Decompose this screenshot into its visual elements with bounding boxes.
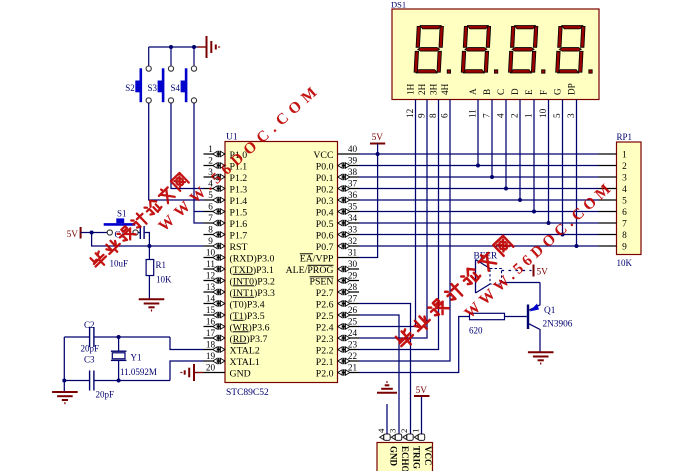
pin 35 io arrow <box>338 208 350 214</box>
wire xtal bottom rail b <box>95 380 171 382</box>
7-seg digit 4 <box>556 26 585 74</box>
watermark C <box>461 178 617 322</box>
wire S4 to chip <box>194 103 204 212</box>
pin 24 stub <box>338 337 360 339</box>
svg-text:9: 9 <box>417 113 427 118</box>
wire buzzer to 5V (dashed) <box>502 270 532 272</box>
svg-text:8: 8 <box>428 113 438 118</box>
transistor Q1 emitter <box>529 283 540 311</box>
pin 16 stub <box>204 326 226 328</box>
wire display digit pin 8 to P2 row <box>359 100 439 350</box>
svg-text:S2: S2 <box>125 83 135 93</box>
svg-text:7: 7 <box>622 220 627 230</box>
wire P0.6 rail <box>359 234 599 236</box>
svg-text:33: 33 <box>348 225 358 235</box>
svg-text:Y1: Y1 <box>131 353 142 363</box>
svg-text:21: 21 <box>348 363 358 373</box>
svg-text:P0.4: P0.4 <box>316 207 334 218</box>
junction display pin 1 <box>532 210 536 214</box>
svg-text:2: 2 <box>510 113 520 118</box>
RP1 pin 1 stub <box>599 153 617 155</box>
crystal Y1 <box>118 337 120 351</box>
pin 1 io arrow <box>213 151 225 157</box>
pin 17 io arrow <box>213 335 225 341</box>
pin 32 stub <box>338 245 360 247</box>
svg-text:7: 7 <box>208 213 213 223</box>
svg-text:5V: 5V <box>537 268 549 278</box>
svg-text:3: 3 <box>387 428 397 433</box>
pin 2 stub <box>204 165 226 167</box>
svg-text:U1: U1 <box>226 133 238 143</box>
pin 31 stub <box>338 257 360 259</box>
pin 25 stub <box>338 326 360 328</box>
svg-text:5: 5 <box>622 197 627 207</box>
7-seg digit 1 <box>414 26 443 74</box>
svg-text:6: 6 <box>208 202 213 212</box>
pin 37 stub <box>338 188 360 190</box>
pin 30 io arrow <box>338 266 350 272</box>
pin 15 io arrow <box>213 312 225 318</box>
pin 23 io arrow <box>338 346 350 352</box>
svg-text:GND: GND <box>230 368 251 379</box>
wire reset rail <box>92 233 204 247</box>
junction reset 5V <box>90 231 94 235</box>
svg-text:20pF: 20pF <box>81 344 100 354</box>
svg-text:1: 1 <box>524 113 534 118</box>
wire P0.0 rail <box>359 165 599 167</box>
watermark A latin <box>155 80 324 235</box>
svg-text:P1.4: P1.4 <box>230 196 248 207</box>
ground xtal <box>52 392 78 403</box>
wire GND pin 4 <box>386 404 388 434</box>
svg-text:29: 29 <box>348 271 358 281</box>
switch S4 <box>193 47 195 66</box>
wire P0.1 rail <box>359 176 599 178</box>
connector JP body <box>377 443 433 471</box>
buzzer BEER body <box>475 260 477 294</box>
switch S3 <box>170 47 172 66</box>
pin 19 io arrow <box>213 358 225 364</box>
ground above connector <box>377 382 397 393</box>
pin 25 io arrow <box>338 323 350 329</box>
svg-text:20: 20 <box>206 363 216 373</box>
pin 36 stub <box>338 199 360 201</box>
svg-text:B: B <box>482 89 492 95</box>
svg-text:7: 7 <box>482 113 492 118</box>
wire S2 to chip <box>149 103 204 200</box>
pin 21 io arrow <box>338 369 350 375</box>
transistor Q1 base bar <box>527 305 529 330</box>
pin 27 io arrow <box>338 300 350 306</box>
svg-text:P2.1: P2.1 <box>316 357 334 368</box>
svg-text:XTAL2: XTAL2 <box>230 345 260 356</box>
svg-text:10K: 10K <box>156 275 172 285</box>
svg-text:P2.7: P2.7 <box>316 288 334 299</box>
capacitor C1 <box>139 226 141 239</box>
svg-text:2N3906: 2N3906 <box>543 320 573 330</box>
svg-text:24: 24 <box>348 328 358 338</box>
wire C1 down <box>145 233 150 247</box>
junction display pin 7 <box>490 175 494 179</box>
pin 22 stub <box>338 360 360 362</box>
svg-text:4: 4 <box>622 185 627 195</box>
pin 6 stub <box>204 211 226 213</box>
pin 10 stub <box>204 257 226 259</box>
RP1 pin 9 stub <box>599 245 617 247</box>
pin 24 io arrow <box>338 335 350 341</box>
wire display segment pin 10 to P0 rail <box>548 100 550 224</box>
svg-text:A: A <box>468 88 478 95</box>
junction S3 rail <box>169 45 173 49</box>
svg-text:ECHO: ECHO <box>400 446 410 471</box>
svg-text:RST: RST <box>230 242 248 253</box>
svg-text:31: 31 <box>348 248 358 258</box>
wire S3 to chip <box>171 103 204 189</box>
svg-text:2: 2 <box>622 162 627 172</box>
pin 5 io arrow <box>213 197 225 203</box>
wire display segment pin 1 to P0 rail <box>533 100 535 212</box>
svg-text:P2.0: P2.0 <box>316 368 334 379</box>
junction display pin 4 <box>504 187 508 191</box>
pin 8 stub <box>204 234 226 236</box>
wire switch top rail <box>149 46 198 48</box>
svg-text:(TXD)P3.1: (TXD)P3.1 <box>230 265 274 276</box>
svg-text:P1.3: P1.3 <box>230 184 248 195</box>
pin 5 stub <box>204 199 226 201</box>
svg-text:VCC: VCC <box>313 150 333 161</box>
wire xtal left vertical <box>63 337 65 392</box>
svg-text:6: 6 <box>440 113 450 118</box>
svg-text:P2.4: P2.4 <box>316 322 334 333</box>
pin 3 io arrow <box>213 174 225 180</box>
svg-text:5V: 5V <box>372 133 384 143</box>
pin 22 io arrow <box>338 358 350 364</box>
pin 14 io arrow <box>213 300 225 306</box>
pin 23 stub <box>338 349 360 351</box>
pin 19 stub <box>204 360 226 362</box>
pin 4 io arrow <box>213 185 225 191</box>
watermark B <box>394 235 514 350</box>
svg-text:10uF: 10uF <box>110 259 129 269</box>
svg-text:PSEN: PSEN <box>310 276 334 287</box>
pin 6 io arrow <box>213 208 225 214</box>
svg-text:34: 34 <box>348 213 358 223</box>
svg-text:P0.3: P0.3 <box>316 196 334 207</box>
junction 5V/VCC <box>376 152 380 156</box>
svg-text:E: E <box>524 89 534 95</box>
resistor 620 body <box>470 313 505 319</box>
pin 11 io arrow <box>213 266 225 272</box>
svg-text:STC89C52: STC89C52 <box>226 388 269 398</box>
RP1 pin 3 stub <box>599 176 617 178</box>
svg-text:P0.1: P0.1 <box>316 173 334 184</box>
svg-text:P0.2: P0.2 <box>316 184 334 195</box>
svg-text:5V: 5V <box>416 386 428 396</box>
svg-text:27: 27 <box>348 294 358 304</box>
RP1 pin 8 stub <box>599 234 617 236</box>
svg-text:P1.5: P1.5 <box>230 207 248 218</box>
pin 39 stub <box>338 165 360 167</box>
pin 7 io arrow <box>213 220 225 226</box>
wire display segment pin 11 to P0 rail <box>477 100 479 166</box>
wire P2.6 to TRIG <box>359 304 411 435</box>
pin 26 io arrow <box>338 312 350 318</box>
svg-text:(INT0)P3.2: (INT0)P3.2 <box>230 276 276 287</box>
svg-text:23: 23 <box>348 340 358 350</box>
svg-text:20pF: 20pF <box>96 390 115 400</box>
power 5V (reset) <box>80 227 82 239</box>
svg-text:4: 4 <box>376 428 386 433</box>
junction display pin 11 <box>476 164 480 168</box>
svg-text:1: 1 <box>410 429 420 433</box>
svg-text:Q1: Q1 <box>544 306 556 316</box>
svg-text:9: 9 <box>622 243 627 253</box>
transistor Q1 collector <box>529 324 540 352</box>
svg-text:12: 12 <box>405 108 415 118</box>
svg-text:11: 11 <box>468 109 478 118</box>
svg-text:R1: R1 <box>156 260 167 270</box>
pin 35 stub <box>338 211 360 213</box>
svg-text:D: D <box>510 88 520 95</box>
svg-text:XTAL1: XTAL1 <box>230 357 260 368</box>
junction Y1 top <box>117 335 121 339</box>
pin 18 io arrow <box>213 346 225 352</box>
wire P0.3 rail <box>359 199 599 201</box>
wire top rail to XTAL2 <box>170 337 204 350</box>
wire xtal top rail <box>64 336 89 338</box>
pin 33 stub <box>338 234 360 236</box>
pin 28 io arrow <box>338 289 350 295</box>
svg-text:DP: DP <box>566 83 576 95</box>
svg-text:37: 37 <box>348 179 358 189</box>
pin 29 io arrow <box>338 277 350 283</box>
svg-text:32: 32 <box>348 236 358 246</box>
wire 620 to Q1 base <box>505 316 527 318</box>
power 5V (connector) <box>414 395 430 397</box>
wire P2.5 to ECHO <box>359 315 399 434</box>
svg-text:S1: S1 <box>117 209 127 219</box>
wire VCC pin 1 <box>421 397 423 434</box>
power 5V (buzzer) <box>533 265 535 277</box>
svg-text:TRIG: TRIG <box>411 446 421 469</box>
switch S2 <box>148 47 150 66</box>
svg-text:9: 9 <box>208 236 213 246</box>
svg-text:28: 28 <box>348 282 358 292</box>
svg-text:5V: 5V <box>67 230 79 240</box>
pin 12 stub <box>204 280 226 282</box>
junction xtal left <box>62 379 66 383</box>
pin 10 io arrow <box>213 254 225 260</box>
svg-text:3H: 3H <box>428 83 438 95</box>
pin 4 stub <box>204 188 226 190</box>
svg-text:C2: C2 <box>84 320 95 330</box>
pin 7 stub <box>204 222 226 224</box>
wire S1 to C1 <box>138 232 140 234</box>
capacitor C3 <box>89 371 91 391</box>
svg-text:(RXD)P3.0: (RXD)P3.0 <box>230 253 275 264</box>
wire display digit pin 6 to P2 row <box>359 100 450 362</box>
svg-text:10K: 10K <box>617 258 633 268</box>
pin 38 io arrow <box>338 174 350 180</box>
ground under Q1 <box>528 352 554 363</box>
svg-text:P2.3: P2.3 <box>316 334 334 345</box>
wire xtal top rail b <box>95 336 171 338</box>
svg-text:1H: 1H <box>405 83 415 95</box>
resistor R1 <box>148 246 150 260</box>
pin 30 stub <box>338 268 360 270</box>
svg-text:VCC: VCC <box>423 446 433 466</box>
svg-text:P1.7: P1.7 <box>230 230 248 241</box>
pin 15 stub <box>204 314 226 316</box>
wire xtal bottom rail <box>64 380 89 382</box>
pin 33 io arrow <box>338 231 350 237</box>
svg-text:8: 8 <box>208 225 213 235</box>
svg-text:39: 39 <box>348 156 358 166</box>
connector pad 1 <box>414 434 424 440</box>
junction display pin 5 <box>561 233 565 237</box>
wire display digit pin 9 to P2 row <box>359 100 427 339</box>
wire P0.5 rail <box>359 222 599 224</box>
transistor Q1 emitter arrow <box>530 304 540 312</box>
connector pad 3 <box>391 434 401 440</box>
svg-text:5: 5 <box>552 113 562 118</box>
svg-text:10: 10 <box>538 108 548 118</box>
pin 29 stub <box>338 280 360 282</box>
svg-text:2: 2 <box>399 429 409 433</box>
pin 14 stub <box>204 303 226 305</box>
pin 21 stub <box>338 372 360 374</box>
connector pad 4 <box>380 434 390 440</box>
junction display pin 3 <box>575 244 579 248</box>
pin 39 io arrow <box>338 162 350 168</box>
wire display segment pin 5 to P0 rail <box>562 100 564 235</box>
7-seg digit 2 <box>461 26 490 74</box>
wire junction to S1 <box>92 232 108 234</box>
svg-text:(INT1)P3.3: (INT1)P3.3 <box>230 288 276 299</box>
svg-text:3: 3 <box>566 113 576 118</box>
svg-text:P0.6: P0.6 <box>316 230 334 241</box>
switch S1 <box>107 230 112 235</box>
svg-text:36: 36 <box>348 190 358 200</box>
svg-text:(WR)P3.6: (WR)P3.6 <box>230 322 270 333</box>
svg-text:26: 26 <box>348 305 358 315</box>
junction display pin 10 <box>547 221 551 225</box>
RP1 pin 5 stub <box>599 199 617 201</box>
svg-text:P2.2: P2.2 <box>316 345 334 356</box>
decimal point 3 <box>542 70 545 73</box>
RP1 pin 4 stub <box>599 188 617 190</box>
pin 34 io arrow <box>338 220 350 226</box>
svg-text:11: 11 <box>206 259 215 269</box>
display DS1 <box>392 9 599 100</box>
svg-text:P0.7: P0.7 <box>316 242 334 253</box>
svg-text:P0.0: P0.0 <box>316 161 334 172</box>
pin 3 stub <box>204 176 226 178</box>
7-seg digit 3 <box>508 26 537 74</box>
svg-text:30: 30 <box>348 259 358 269</box>
decimal point 4 <box>589 70 592 73</box>
pin 12 io arrow <box>213 277 225 283</box>
svg-text:35: 35 <box>348 202 358 212</box>
pin 9 stub <box>204 245 226 247</box>
svg-text:6: 6 <box>622 208 627 218</box>
RP1 pin 2 stub <box>599 165 617 167</box>
resistor network RP1 body <box>617 142 642 255</box>
wire display segment pin 7 to P0 rail <box>491 100 493 178</box>
pin 26 stub <box>338 314 360 316</box>
svg-text:P2.5: P2.5 <box>316 311 334 322</box>
wire display digit pin 12 to P2 row <box>359 100 416 327</box>
ground under R1 <box>139 299 165 310</box>
pin 13 io arrow <box>213 289 225 295</box>
pin 11 stub <box>204 268 226 270</box>
svg-text:P2.6: P2.6 <box>316 299 334 310</box>
watermark A chinese <box>89 172 189 270</box>
svg-text:3: 3 <box>622 174 627 184</box>
pin 18 stub <box>204 349 226 351</box>
pin 13 stub <box>204 291 226 293</box>
svg-text:11.0592M: 11.0592M <box>120 367 157 377</box>
wire P0.4 rail <box>359 211 599 213</box>
pin 16 io arrow <box>213 323 225 329</box>
pin 37 io arrow <box>338 185 350 191</box>
svg-text:F: F <box>538 90 548 95</box>
svg-text:22: 22 <box>348 351 358 361</box>
pin 2 io arrow <box>213 162 225 168</box>
RP1 pin 7 stub <box>599 222 617 224</box>
svg-text:C: C <box>496 89 506 95</box>
pin 20 stub <box>204 372 226 374</box>
wire EA to 5V <box>359 154 378 258</box>
ground at pin 20 <box>181 364 194 381</box>
svg-text:(T1)P3.5: (T1)P3.5 <box>230 311 265 322</box>
wire P0.7 rail <box>359 245 599 247</box>
pin 9 io arrow <box>213 243 225 249</box>
wire buzzer to Q1 emitter <box>502 282 541 284</box>
capacitor C2 <box>89 327 91 347</box>
svg-text:EA/VPP: EA/VPP <box>300 253 334 264</box>
svg-text:S4: S4 <box>171 83 181 93</box>
svg-text:G: G <box>552 88 562 95</box>
mcu U1 body <box>225 142 338 383</box>
svg-text:S3: S3 <box>148 83 158 93</box>
pin 8 io arrow <box>213 231 225 237</box>
svg-text:8: 8 <box>622 231 627 241</box>
svg-text:(RD)P3.7: (RD)P3.7 <box>230 334 268 345</box>
decimal point 2 <box>494 70 497 73</box>
wire display segment pin 2 to P0 rail <box>519 100 521 201</box>
power 5V (VCC) <box>370 133 385 154</box>
junction RST/R1 <box>147 244 151 248</box>
svg-text:1: 1 <box>208 144 213 154</box>
pin 17 stub <box>204 337 226 339</box>
pin 1 stub <box>204 153 226 155</box>
svg-text:P0.5: P0.5 <box>316 219 334 230</box>
svg-text:2H: 2H <box>417 83 427 95</box>
wire VCC rail <box>359 153 599 155</box>
wire XTAL1 to bottom rail <box>170 361 204 381</box>
svg-text:4H: 4H <box>440 83 450 95</box>
svg-text:GND: GND <box>388 446 398 467</box>
decimal point 1 <box>447 70 450 73</box>
wire display segment pin 4 to P0 rail <box>505 100 507 189</box>
wire 5V to junction <box>81 232 92 234</box>
svg-text:C3: C3 <box>84 355 95 365</box>
connector pad 2 <box>403 434 413 440</box>
svg-text:(T0)P3.4: (T0)P3.4 <box>230 299 265 310</box>
svg-text:ALE/PROG: ALE/PROG <box>286 265 334 276</box>
wire display segment pin 3 to P0 rail <box>576 100 578 247</box>
